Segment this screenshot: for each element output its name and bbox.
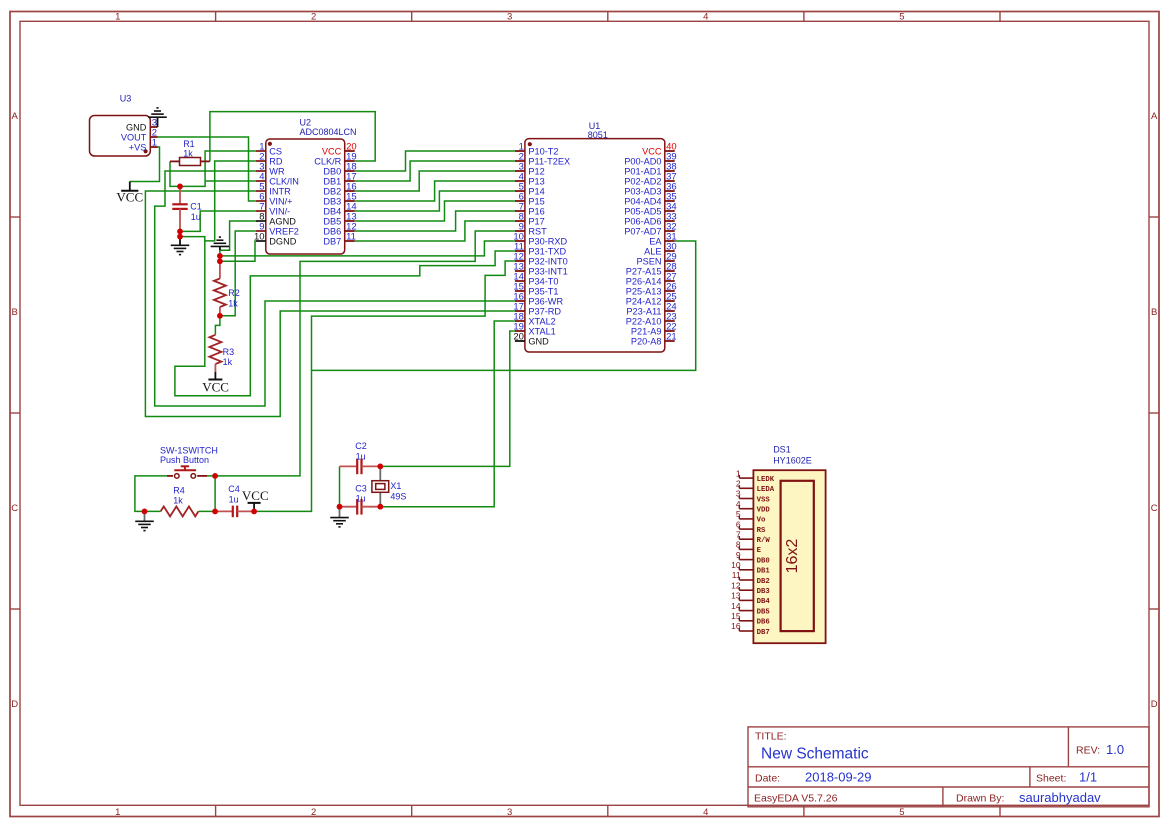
svg-text:DB3: DB3 bbox=[757, 588, 771, 596]
U2 reference label bbox=[300, 118, 357, 137]
wire EA to VCC net bbox=[312, 241, 696, 370]
svg-text:C1: C1 bbox=[190, 202, 202, 212]
wire DB5 to P15 bbox=[355, 201, 515, 221]
svg-text:C4: C4 bbox=[228, 484, 240, 494]
wire RST to reset net bbox=[215, 231, 515, 476]
svg-text:P04-AD4: P04-AD4 bbox=[624, 196, 661, 206]
svg-text:P11-T2EX: P11-T2EX bbox=[528, 156, 570, 166]
R2 value label 1k bbox=[228, 288, 240, 309]
svg-text:P25-A13: P25-A13 bbox=[626, 286, 662, 296]
svg-text:1u: 1u bbox=[356, 452, 366, 462]
resistor R1 bbox=[170, 158, 210, 166]
VCC net flag near U3 bbox=[116, 182, 143, 205]
resistor R3 bbox=[209, 335, 221, 372]
svg-text:P24-A12: P24-A12 bbox=[626, 296, 662, 306]
svg-text:1u: 1u bbox=[191, 212, 201, 222]
svg-text:DB3: DB3 bbox=[323, 196, 341, 206]
svg-text:E: E bbox=[757, 547, 762, 555]
svg-text:DB7: DB7 bbox=[323, 236, 341, 246]
svg-text:DB2: DB2 bbox=[757, 578, 770, 586]
wire DB4 to P14 bbox=[355, 191, 515, 211]
wire DGND to ground net bbox=[220, 241, 256, 261]
svg-text:1: 1 bbox=[115, 12, 120, 23]
svg-text:3: 3 bbox=[736, 489, 741, 499]
wire DB3 to P13 bbox=[355, 181, 515, 201]
svg-text:12: 12 bbox=[731, 580, 741, 590]
switch SW-1SWITCH push button bbox=[167, 466, 207, 478]
wire DB0 to P10-T2 bbox=[355, 151, 515, 171]
svg-text:4: 4 bbox=[736, 499, 741, 509]
svg-text:P21-A9: P21-A9 bbox=[631, 326, 662, 336]
svg-text:B: B bbox=[1151, 307, 1157, 318]
capacitor C1 bbox=[172, 186, 187, 231]
svg-text:6: 6 bbox=[736, 519, 741, 529]
U1 reference label bbox=[588, 121, 608, 140]
svg-text:B: B bbox=[12, 307, 18, 318]
svg-text:10: 10 bbox=[731, 560, 741, 570]
svg-text:C: C bbox=[11, 503, 18, 514]
svg-text:1: 1 bbox=[152, 137, 157, 148]
border ruler letters bbox=[11, 111, 1158, 710]
svg-text:P01-AD1: P01-AD1 bbox=[624, 166, 661, 176]
svg-text:EasyEDA V5.7.26: EasyEDA V5.7.26 bbox=[754, 793, 838, 805]
wire VREF2 to divider net bbox=[220, 231, 256, 316]
svg-text:P03-AD3: P03-AD3 bbox=[624, 186, 661, 196]
svg-text:TITLE:: TITLE: bbox=[755, 730, 787, 742]
svg-text:C2: C2 bbox=[355, 441, 367, 451]
title block bbox=[748, 727, 1149, 807]
svg-text:C3: C3 bbox=[355, 483, 367, 493]
svg-text:INTR: INTR bbox=[269, 186, 291, 196]
svg-text:P00-AD0: P00-AD0 bbox=[624, 156, 661, 166]
svg-text:14: 14 bbox=[731, 601, 741, 611]
svg-text:VCC: VCC bbox=[202, 379, 229, 394]
svg-text:P35-T1: P35-T1 bbox=[528, 286, 558, 296]
U2 right pins 20-11 bbox=[314, 141, 356, 246]
wire INTR to P37-RD net bbox=[145, 191, 515, 417]
svg-text:Date:: Date: bbox=[755, 772, 780, 784]
svg-text:ADC0804LCN: ADC0804LCN bbox=[300, 127, 357, 137]
svg-text:P23-A11: P23-A11 bbox=[626, 306, 661, 316]
svg-text:VCC: VCC bbox=[116, 190, 143, 205]
wire DB1 to P11-T2EX bbox=[355, 161, 515, 181]
SW1 labels bbox=[160, 445, 218, 465]
svg-text:P07-AD7: P07-AD7 bbox=[624, 226, 661, 236]
DS1 pins 1-16 bbox=[731, 468, 775, 636]
LCD module DS1 HY1602E body bbox=[753, 470, 825, 643]
svg-text:1u: 1u bbox=[356, 494, 366, 504]
junction dots bbox=[142, 184, 384, 515]
svg-text:A: A bbox=[1151, 111, 1158, 122]
svg-text:PSEN: PSEN bbox=[636, 256, 661, 266]
svg-text:P36-WR: P36-WR bbox=[528, 296, 563, 306]
svg-text:2: 2 bbox=[311, 807, 316, 818]
C1 value label 1u bbox=[190, 202, 202, 222]
svg-text:P12: P12 bbox=[528, 166, 544, 176]
svg-text:R2: R2 bbox=[228, 288, 240, 298]
wire RD to C1 bottom net bbox=[180, 161, 256, 241]
title block text bbox=[754, 730, 1124, 805]
svg-text:15: 15 bbox=[731, 611, 741, 621]
svg-text:RST: RST bbox=[528, 226, 547, 236]
svg-text:8051: 8051 bbox=[588, 130, 608, 140]
wire VOUT to VIN/+ net bbox=[158, 137, 256, 201]
wire DB2 to P12 bbox=[355, 171, 515, 191]
svg-text:1k: 1k bbox=[223, 357, 233, 367]
wire R1 to C1 top to CS net bbox=[170, 151, 256, 186]
U1 right pins 40-21 bbox=[624, 141, 676, 346]
svg-text:DB5: DB5 bbox=[757, 608, 770, 616]
svg-text:7: 7 bbox=[736, 529, 741, 539]
ground flag at AGND net bbox=[211, 237, 230, 250]
svg-text:P14: P14 bbox=[528, 186, 544, 196]
wire +VS to VCC flag net bbox=[130, 147, 160, 182]
svg-text:saurabhyadav: saurabhyadav bbox=[1019, 790, 1101, 805]
svg-text:LEDK: LEDK bbox=[757, 476, 775, 484]
svg-text:P22-A10: P22-A10 bbox=[626, 316, 662, 326]
svg-text:P31-TXD: P31-TXD bbox=[528, 246, 566, 256]
svg-text:C: C bbox=[1151, 503, 1158, 514]
ground flag above U3 GND pin bbox=[148, 108, 167, 127]
resistor R2 bbox=[214, 261, 226, 316]
capacitor C2 bbox=[340, 459, 381, 475]
svg-text:P37-RD: P37-RD bbox=[528, 306, 561, 316]
svg-text:A: A bbox=[12, 111, 19, 122]
svg-text:DB4: DB4 bbox=[757, 598, 771, 606]
svg-text:R4: R4 bbox=[173, 486, 185, 496]
svg-text:VDD: VDD bbox=[757, 506, 771, 514]
svg-text:D: D bbox=[11, 699, 18, 710]
ground flag below R4 bbox=[135, 511, 154, 530]
svg-text:P33-INT1: P33-INT1 bbox=[528, 266, 567, 276]
svg-text:P17: P17 bbox=[528, 216, 544, 226]
wire R4 right lead bbox=[198, 510, 215, 512]
wire DB6 to P16 bbox=[355, 211, 515, 231]
DS1 reference label bbox=[773, 445, 812, 466]
border ruler numbers bbox=[115, 12, 904, 818]
wire DB7 to P17 bbox=[355, 221, 515, 241]
svg-text:U3: U3 bbox=[120, 94, 132, 104]
svg-text:P10-T2: P10-T2 bbox=[528, 146, 558, 156]
crystal X1 49S bbox=[372, 466, 389, 506]
svg-text:VREF2: VREF2 bbox=[269, 226, 299, 236]
svg-text:1: 1 bbox=[736, 468, 741, 478]
svg-text:3: 3 bbox=[507, 12, 512, 23]
svg-text:+VS: +VS bbox=[129, 142, 147, 152]
svg-text:16x2: 16x2 bbox=[784, 539, 801, 574]
VCC net flag at C4/reset net bbox=[242, 488, 269, 511]
svg-text:P05-AD5: P05-AD5 bbox=[624, 206, 661, 216]
svg-text:CLK/IN: CLK/IN bbox=[269, 176, 299, 186]
svg-text:EA: EA bbox=[649, 236, 662, 246]
svg-text:4: 4 bbox=[703, 807, 708, 818]
svg-text:HY1602E: HY1602E bbox=[773, 456, 812, 466]
svg-text:DS1: DS1 bbox=[773, 445, 791, 455]
capacitor C3 bbox=[340, 499, 381, 515]
C4 value label 1u bbox=[228, 484, 240, 504]
R4 value label 1k bbox=[173, 486, 185, 506]
wire XTAL1 to crystal net bbox=[380, 331, 515, 466]
wire P30-RXD to ground net bbox=[220, 241, 515, 256]
svg-text:1k: 1k bbox=[183, 149, 193, 159]
capacitor C4 bbox=[215, 506, 254, 518]
svg-text:2: 2 bbox=[311, 12, 316, 23]
svg-text:P15: P15 bbox=[528, 196, 544, 206]
svg-text:P32-INT0: P32-INT0 bbox=[528, 256, 567, 266]
svg-text:P06-AD6: P06-AD6 bbox=[624, 216, 661, 226]
svg-text:DB7: DB7 bbox=[757, 629, 770, 637]
svg-text:DB5: DB5 bbox=[323, 216, 341, 226]
svg-text:D: D bbox=[1151, 699, 1158, 710]
svg-text:9: 9 bbox=[736, 550, 741, 560]
svg-text:8: 8 bbox=[736, 540, 741, 550]
wire switch left to ground net bbox=[135, 476, 167, 512]
svg-text:11: 11 bbox=[732, 570, 741, 580]
svg-text:CS: CS bbox=[269, 146, 282, 156]
svg-text:DB1: DB1 bbox=[323, 176, 341, 186]
svg-text:11: 11 bbox=[346, 231, 356, 242]
wire C1 bottom to P31-TXD net bbox=[175, 241, 515, 396]
svg-text:20: 20 bbox=[513, 331, 524, 342]
VCC net flag below R3 bbox=[202, 372, 229, 395]
svg-text:XTAL1: XTAL1 bbox=[528, 326, 555, 336]
op-amp U1 8051 body bbox=[525, 139, 665, 352]
svg-text:DB0: DB0 bbox=[757, 557, 770, 565]
svg-text:DGND: DGND bbox=[269, 236, 296, 246]
R3 value label 1k bbox=[223, 347, 235, 367]
svg-text:5: 5 bbox=[899, 12, 904, 23]
svg-text:REV:: REV: bbox=[1076, 744, 1100, 756]
U3 pins 3,2,1 bbox=[121, 117, 158, 152]
wire R2 to R3 jog bbox=[215, 316, 220, 335]
svg-text:2018-09-29: 2018-09-29 bbox=[805, 770, 872, 785]
svg-text:P13: P13 bbox=[528, 176, 544, 186]
svg-text:SW-1SWITCH: SW-1SWITCH bbox=[160, 445, 218, 455]
svg-text:XTAL2: XTAL2 bbox=[528, 316, 555, 326]
svg-text:1k: 1k bbox=[173, 495, 183, 505]
svg-text:WR: WR bbox=[269, 166, 285, 176]
svg-text:DB4: DB4 bbox=[323, 206, 341, 216]
wire R4 left lead bbox=[145, 510, 161, 512]
svg-text:RS: RS bbox=[757, 527, 766, 535]
svg-text:New Schematic: New Schematic bbox=[761, 746, 869, 763]
svg-text:RD: RD bbox=[269, 156, 283, 166]
svg-text:49S: 49S bbox=[390, 491, 406, 501]
svg-text:3: 3 bbox=[507, 807, 512, 818]
svg-text:R/W: R/W bbox=[757, 537, 771, 545]
wire CLK/R to R1 net bbox=[210, 112, 375, 162]
svg-text:1k: 1k bbox=[228, 298, 238, 308]
resistor R4 bbox=[161, 506, 199, 516]
svg-text:P27-A15: P27-A15 bbox=[626, 266, 662, 276]
wire VIN/- to C1 bottom net bbox=[180, 211, 256, 231]
X1 value label 49S bbox=[390, 481, 406, 502]
R1 value label 1k bbox=[183, 139, 195, 158]
svg-text:5: 5 bbox=[899, 807, 904, 818]
svg-text:DB0: DB0 bbox=[323, 166, 341, 176]
svg-text:VOUT: VOUT bbox=[121, 132, 147, 142]
svg-text:R3: R3 bbox=[223, 347, 235, 357]
svg-text:VCC: VCC bbox=[242, 488, 269, 503]
C2 value label 1u bbox=[355, 441, 367, 461]
svg-text:DB1: DB1 bbox=[757, 568, 771, 576]
svg-text:P30-RXD: P30-RXD bbox=[528, 236, 567, 246]
svg-text:1.0: 1.0 bbox=[1106, 742, 1124, 757]
svg-text:DB6: DB6 bbox=[757, 619, 770, 627]
svg-text:P34-T0: P34-T0 bbox=[528, 276, 558, 286]
svg-text:ALE: ALE bbox=[644, 246, 661, 256]
U3 reference label bbox=[120, 94, 132, 104]
wire P32-INT0 to EA/VCC net bbox=[254, 261, 515, 511]
ground flag below C1 bbox=[171, 237, 190, 255]
svg-text:Vo: Vo bbox=[757, 517, 766, 525]
svg-text:1/1: 1/1 bbox=[1079, 770, 1097, 785]
svg-text:GND: GND bbox=[126, 122, 147, 132]
svg-text:P26-A14: P26-A14 bbox=[626, 276, 662, 286]
svg-text:VCC: VCC bbox=[322, 146, 342, 156]
svg-text:CLK/R: CLK/R bbox=[314, 156, 341, 166]
svg-text:P16: P16 bbox=[528, 206, 544, 216]
svg-text:13: 13 bbox=[731, 591, 741, 601]
svg-text:5: 5 bbox=[736, 509, 741, 519]
svg-text:X1: X1 bbox=[390, 481, 401, 491]
svg-text:DB2: DB2 bbox=[323, 186, 341, 196]
U1 left pins 1-20 bbox=[513, 141, 570, 346]
svg-text:DB6: DB6 bbox=[323, 226, 341, 236]
svg-text:VCC: VCC bbox=[642, 146, 662, 156]
svg-text:4: 4 bbox=[703, 12, 708, 23]
ground flag below C3 bbox=[330, 507, 349, 527]
U2 left pins 1-10 bbox=[254, 141, 299, 246]
svg-text:16: 16 bbox=[731, 621, 741, 631]
svg-text:GND: GND bbox=[528, 336, 549, 346]
svg-text:1u: 1u bbox=[229, 494, 239, 504]
transducer U3 body bbox=[90, 116, 151, 157]
svg-text:Sheet:: Sheet: bbox=[1036, 772, 1066, 784]
svg-text:VSS: VSS bbox=[757, 496, 771, 504]
op-amp U2 ADC0804LCN body bbox=[266, 139, 345, 254]
C3 value label 1u bbox=[355, 483, 367, 503]
wire XTAL2 to crystal net bbox=[380, 321, 515, 507]
wire WR to P36-WR net bbox=[155, 171, 515, 406]
svg-text:Push Button: Push Button bbox=[160, 455, 209, 465]
svg-text:P20-A8: P20-A8 bbox=[631, 336, 662, 346]
svg-text:LEDA: LEDA bbox=[757, 486, 775, 494]
wire AGND to ground net bbox=[220, 221, 256, 261]
svg-text:VIN/+: VIN/+ bbox=[269, 196, 292, 206]
svg-text:VIN/-: VIN/- bbox=[269, 206, 290, 216]
svg-text:P02-AD2: P02-AD2 bbox=[624, 176, 661, 186]
wire CLK/IN to RC net bbox=[205, 180, 256, 182]
wire C2 left to C3 left / ground net bbox=[339, 466, 341, 506]
wire switch right to R4/C4 net bbox=[207, 476, 215, 512]
svg-text:1: 1 bbox=[115, 807, 120, 818]
svg-text:21: 21 bbox=[666, 331, 677, 342]
svg-text:AGND: AGND bbox=[269, 216, 296, 226]
svg-text:2: 2 bbox=[736, 478, 741, 488]
svg-text:Drawn By:: Drawn By: bbox=[956, 793, 1004, 805]
